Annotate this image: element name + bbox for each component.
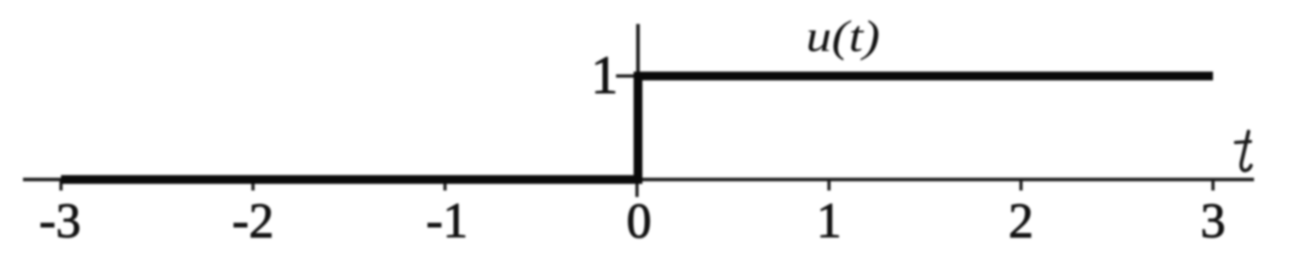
node tick y=1	[616, 74, 638, 77]
svg-text:3: 3	[1201, 192, 1226, 248]
svg-text:1: 1	[817, 192, 842, 248]
node tick 1	[827, 180, 830, 191]
node tick -3	[59, 180, 62, 191]
node tick -1	[443, 180, 446, 191]
node tick 0	[635, 180, 638, 197]
svg-text:0: 0	[627, 192, 652, 248]
svg-text:-2: -2	[232, 192, 274, 248]
svg-text:u(t): u(t)	[806, 12, 880, 61]
svg-text:-1: -1	[426, 192, 468, 248]
wire step function u(t) trace	[61, 76, 1213, 180]
node label t	[1236, 132, 1252, 171]
svg-text:-3: -3	[39, 192, 81, 248]
svg-text:1: 1	[591, 45, 618, 105]
node tick -2	[251, 180, 254, 191]
wire x-axis	[23, 178, 1254, 181]
node tick 2	[1019, 180, 1022, 191]
node tick 3	[1211, 180, 1214, 191]
wire y-axis	[636, 24, 640, 180]
svg-text:2: 2	[1009, 192, 1034, 248]
